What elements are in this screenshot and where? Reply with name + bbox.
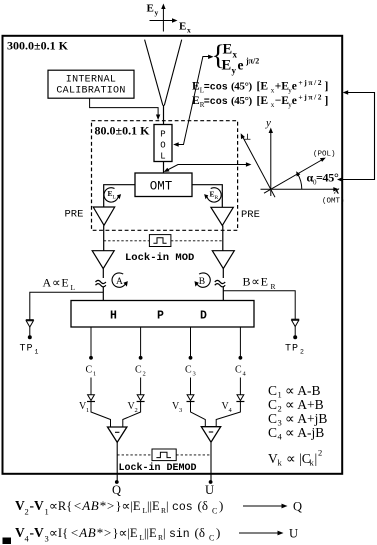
svg-text:3: 3 xyxy=(179,407,182,414)
svg-text:∝ A-jB: ∝ A-jB xyxy=(285,425,324,440)
svg-text:O: O xyxy=(160,140,165,150)
svg-text:⊥: ⊥ xyxy=(244,133,251,142)
svg-text:e: e xyxy=(292,80,297,92)
svg-text:C: C xyxy=(212,507,217,516)
svg-text:V: V xyxy=(268,451,278,466)
wire diff amp right to U xyxy=(209,442,213,484)
wire diff amp left to Q xyxy=(115,442,119,484)
svg-text:|: | xyxy=(315,451,318,466)
svg-text:E: E xyxy=(179,21,186,33)
wire RF amp right to hybrid xyxy=(222,269,224,301)
differential amplifier left (Q chain) xyxy=(108,427,127,442)
label PRE left xyxy=(65,209,84,221)
wire V2 to diff amp xyxy=(123,402,141,428)
svg-text:L: L xyxy=(71,283,76,292)
preamp right triangle xyxy=(211,207,233,225)
feedback loop wire (right side) xyxy=(337,90,375,181)
output wire C3 xyxy=(185,327,196,395)
wire left preamp down xyxy=(103,225,105,250)
wire calibration to horn throat xyxy=(90,99,161,121)
angle arc alpha0 xyxy=(296,171,302,189)
corner mark xyxy=(3,538,12,545)
node B (circled) xyxy=(195,273,211,287)
svg-text:[E: [E xyxy=(257,95,269,107)
wire POL to OMT xyxy=(163,162,165,174)
equation E_L xyxy=(192,78,328,94)
svg-text:+jπ/2: +jπ/2 xyxy=(298,93,323,102)
svg-text:=cos: =cos xyxy=(204,82,228,93)
svg-text:A: A xyxy=(116,277,123,287)
svg-text:PRE: PRE xyxy=(65,209,84,221)
svg-text:1: 1 xyxy=(93,371,96,378)
svg-text:1: 1 xyxy=(278,390,282,400)
svg-text:(δ: (δ xyxy=(195,525,205,540)
detector diode V3 xyxy=(172,395,195,414)
svg-text:3: 3 xyxy=(278,418,282,428)
detector diode V1 xyxy=(79,395,95,414)
svg-text:E: E xyxy=(192,95,200,107)
wire V3 to diff amp xyxy=(191,402,206,427)
wire V4 to diff amp xyxy=(216,402,240,427)
svg-text:<AB*>: <AB*> xyxy=(70,525,112,540)
svg-text:P: P xyxy=(157,310,164,323)
reference axes: y axis xyxy=(265,117,273,196)
OMT box xyxy=(135,173,192,197)
svg-text:+jπ/2: +jπ/2 xyxy=(298,78,323,87)
svg-text:C: C xyxy=(209,534,214,543)
label Lock-in DEMOD xyxy=(119,462,197,474)
svg-text:2: 2 xyxy=(25,507,29,517)
svg-text:80.0±0.1 K: 80.0±0.1 K xyxy=(95,124,151,138)
phase switch right (E_R) xyxy=(204,188,221,202)
svg-text:C: C xyxy=(185,365,192,376)
arrow OMT reference to x axis (double headed) xyxy=(164,162,252,172)
svg-text:Lock-in DEMOD: Lock-in DEMOD xyxy=(119,462,197,474)
svg-text:A∝E: A∝E xyxy=(43,276,70,290)
svg-text:2: 2 xyxy=(318,448,322,458)
label A prop E_L xyxy=(43,276,76,293)
svg-text:−E: −E xyxy=(275,95,290,107)
svg-text:<AB*>: <AB*> xyxy=(73,498,115,513)
svg-text:C: C xyxy=(268,397,277,412)
svg-text:Q: Q xyxy=(293,500,302,514)
svg-text:TP: TP xyxy=(285,344,299,355)
svg-text:V: V xyxy=(15,498,25,513)
svg-text:=cos: =cos xyxy=(204,97,228,108)
svg-text:(45°): (45°) xyxy=(231,80,252,92)
outer enclosure box 300K xyxy=(3,36,343,474)
svg-text:L: L xyxy=(160,151,165,161)
label E_y e^jpi/2 (circular comp 2) xyxy=(222,57,260,76)
svg-text:∝ |C: ∝ |C xyxy=(286,451,311,466)
flexible section left (tilde) xyxy=(96,280,106,286)
svg-text:}∝|E: }∝|E xyxy=(116,499,141,513)
svg-text:R: R xyxy=(215,195,219,201)
svg-text:2: 2 xyxy=(278,404,282,414)
svg-text:e: e xyxy=(238,58,244,73)
differential amplifier right (U chain) xyxy=(201,427,220,443)
svg-text:∝ A+jB: ∝ A+jB xyxy=(285,411,327,426)
svg-text:2: 2 xyxy=(143,371,146,378)
label E_x xyxy=(179,21,191,35)
INTERNAL CALIBRATION box U1 xyxy=(48,70,134,98)
label 300.0±0.1 K xyxy=(7,38,69,52)
svg-text:y: y xyxy=(155,8,159,17)
svg-text:C: C xyxy=(235,365,242,376)
svg-text:cos: cos xyxy=(172,501,193,514)
svg-text:Lock-in MOD: Lock-in MOD xyxy=(125,252,194,264)
svg-text:}∝|E: }∝|E xyxy=(113,526,138,540)
svg-text:x: x xyxy=(333,185,340,197)
svg-text:e: e xyxy=(292,95,297,107)
svg-text:C: C xyxy=(268,383,277,398)
RF amp left triangle xyxy=(92,251,114,269)
label TP1 xyxy=(20,344,39,356)
svg-text:∝R{: ∝R{ xyxy=(49,499,72,513)
square wave reference box (DEMOD) xyxy=(152,449,176,461)
wire V1 to diff amp xyxy=(91,402,111,428)
svg-text:x: x xyxy=(187,26,191,35)
detector law V_k xyxy=(268,448,322,468)
phase switch left (E_L) xyxy=(104,188,121,202)
node A (circled) xyxy=(112,273,128,287)
svg-text:+E: +E xyxy=(275,80,290,92)
svg-text:3: 3 xyxy=(193,371,196,378)
svg-text:): ) xyxy=(216,525,220,540)
svg-text:B: B xyxy=(199,277,205,287)
svg-text:E: E xyxy=(223,42,233,58)
wire horn to POL xyxy=(163,105,165,125)
svg-text:R: R xyxy=(271,282,276,291)
svg-text:sin: sin xyxy=(169,528,190,541)
dashed cryostat box 80K xyxy=(92,121,238,231)
svg-text:INTERNAL: INTERNAL xyxy=(66,75,116,86)
svg-text:D: D xyxy=(200,310,207,323)
svg-text:∝ A+B: ∝ A+B xyxy=(285,397,324,412)
svg-text:PRE: PRE xyxy=(241,209,260,221)
label E_y xyxy=(147,3,159,18)
brace for field components xyxy=(212,41,225,72)
svg-text:y: y xyxy=(265,117,271,129)
label (OMT) xyxy=(322,198,345,206)
test point TP2 tap wire xyxy=(223,291,295,319)
label 80.0±0.1 K xyxy=(95,124,151,138)
svg-text:300.0±0.1 K: 300.0±0.1 K xyxy=(7,38,69,52)
preamp left triangle xyxy=(93,207,115,225)
arrow POL output to field notation (double-headed) xyxy=(173,55,213,147)
svg-text:C: C xyxy=(86,365,93,376)
svg-text:(OMT): (OMT) xyxy=(322,198,345,206)
Lock-in DEMOD dashed control line xyxy=(117,454,211,456)
svg-text:]: ] xyxy=(325,80,329,92)
flexible section right (tilde) xyxy=(215,280,225,286)
hybrid phase discriminator box H P D xyxy=(71,301,254,328)
svg-text:P: P xyxy=(160,129,165,139)
wire RF amp left to hybrid xyxy=(102,269,104,301)
svg-text:(POL): (POL) xyxy=(313,151,336,159)
label Q output xyxy=(112,483,121,497)
svg-text:||E: ||E xyxy=(147,499,160,513)
label B prop E_R xyxy=(243,275,276,292)
svg-text:C: C xyxy=(268,411,277,426)
label (POL) xyxy=(313,151,336,159)
label TP2 xyxy=(285,344,304,356)
detector diode TP1 xyxy=(26,320,34,340)
POL direction arrow xyxy=(264,158,326,194)
svg-text:=45°: =45° xyxy=(316,171,339,185)
square wave reference box (MOD) xyxy=(149,235,171,247)
svg-text:y: y xyxy=(232,66,237,76)
svg-text:[E: [E xyxy=(257,80,269,92)
output wire C2 xyxy=(135,327,146,395)
label E_x (circular comp 1) xyxy=(223,42,238,60)
svg-text:1: 1 xyxy=(86,407,89,414)
svg-text:): ) xyxy=(219,498,223,513)
detector diode V4 xyxy=(222,395,245,414)
E-field vector cross (incoming wave) xyxy=(150,4,178,32)
reference axes: x axis xyxy=(261,185,341,197)
svg-text:∝ A-B: ∝ A-B xyxy=(285,383,321,398)
horn antenna xyxy=(145,40,182,106)
svg-text:∝I{: ∝I{ xyxy=(49,526,68,540)
Lock-in MOD dashed control line xyxy=(104,240,223,242)
svg-text:TP: TP xyxy=(20,344,34,355)
svg-text:2: 2 xyxy=(300,349,304,356)
perpendicular direction arrow xyxy=(241,133,275,198)
detector diode V2 xyxy=(128,395,145,414)
svg-text:(45°): (45°) xyxy=(231,95,252,107)
equation E_R xyxy=(192,93,328,109)
svg-text:U: U xyxy=(289,527,298,541)
svg-text:C: C xyxy=(268,425,277,440)
svg-text:B∝E: B∝E xyxy=(243,275,269,289)
label U output xyxy=(205,483,214,497)
svg-text:E: E xyxy=(222,58,232,74)
svg-text:V: V xyxy=(15,525,25,540)
equation line 1: Q output xyxy=(15,498,302,517)
svg-text:jπ/2: jπ/2 xyxy=(245,57,259,66)
svg-text:E: E xyxy=(147,3,154,15)
svg-text:E: E xyxy=(192,80,200,92)
polarizer box POL xyxy=(154,125,172,162)
svg-text:OMT: OMT xyxy=(150,179,173,193)
output wire C4 xyxy=(235,327,247,395)
svg-text:|: | xyxy=(166,499,169,513)
correlator outputs list C1..C4 xyxy=(268,383,321,400)
svg-text:|: | xyxy=(163,526,166,540)
output wire C1 xyxy=(86,327,97,395)
wire OMT right output xyxy=(192,185,222,208)
label Lock-in MOD xyxy=(125,252,194,264)
svg-text:Q: Q xyxy=(112,483,121,497)
svg-text:1: 1 xyxy=(35,349,39,356)
label alpha0=45 xyxy=(307,171,339,187)
RF amp right triangle xyxy=(212,251,234,269)
detector diode TP2 xyxy=(291,319,299,339)
svg-text:H: H xyxy=(110,310,117,323)
equation line 2: U output xyxy=(15,525,298,544)
svg-text:(δ: (δ xyxy=(198,498,208,513)
svg-text:]: ] xyxy=(325,95,329,107)
svg-text:CALIBRATION: CALIBRATION xyxy=(56,85,125,96)
svg-text:-V: -V xyxy=(30,525,44,540)
svg-text:U: U xyxy=(205,483,214,497)
svg-text:||E: ||E xyxy=(144,526,157,540)
svg-text:-V: -V xyxy=(30,498,44,513)
wire OMT left output xyxy=(104,185,135,207)
svg-text:C: C xyxy=(135,365,142,376)
wire right preamp down xyxy=(222,226,224,251)
label PRE right xyxy=(241,209,260,221)
test point TP1 tap wire xyxy=(30,292,104,319)
